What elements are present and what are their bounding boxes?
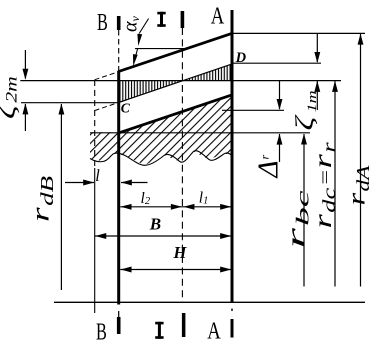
svg-text:B: B <box>149 215 161 234</box>
svg-text:H: H <box>173 243 188 262</box>
svg-text:l: l <box>95 166 100 185</box>
svg-text:A: A <box>211 3 225 29</box>
svg-text:D: D <box>235 50 247 66</box>
svg-text:ζ2m: ζ2m <box>0 76 21 119</box>
svg-text:A: A <box>207 318 221 344</box>
svg-text:C: C <box>121 100 131 115</box>
svg-text:B: B <box>96 319 107 345</box>
svg-text:B: B <box>97 10 108 36</box>
